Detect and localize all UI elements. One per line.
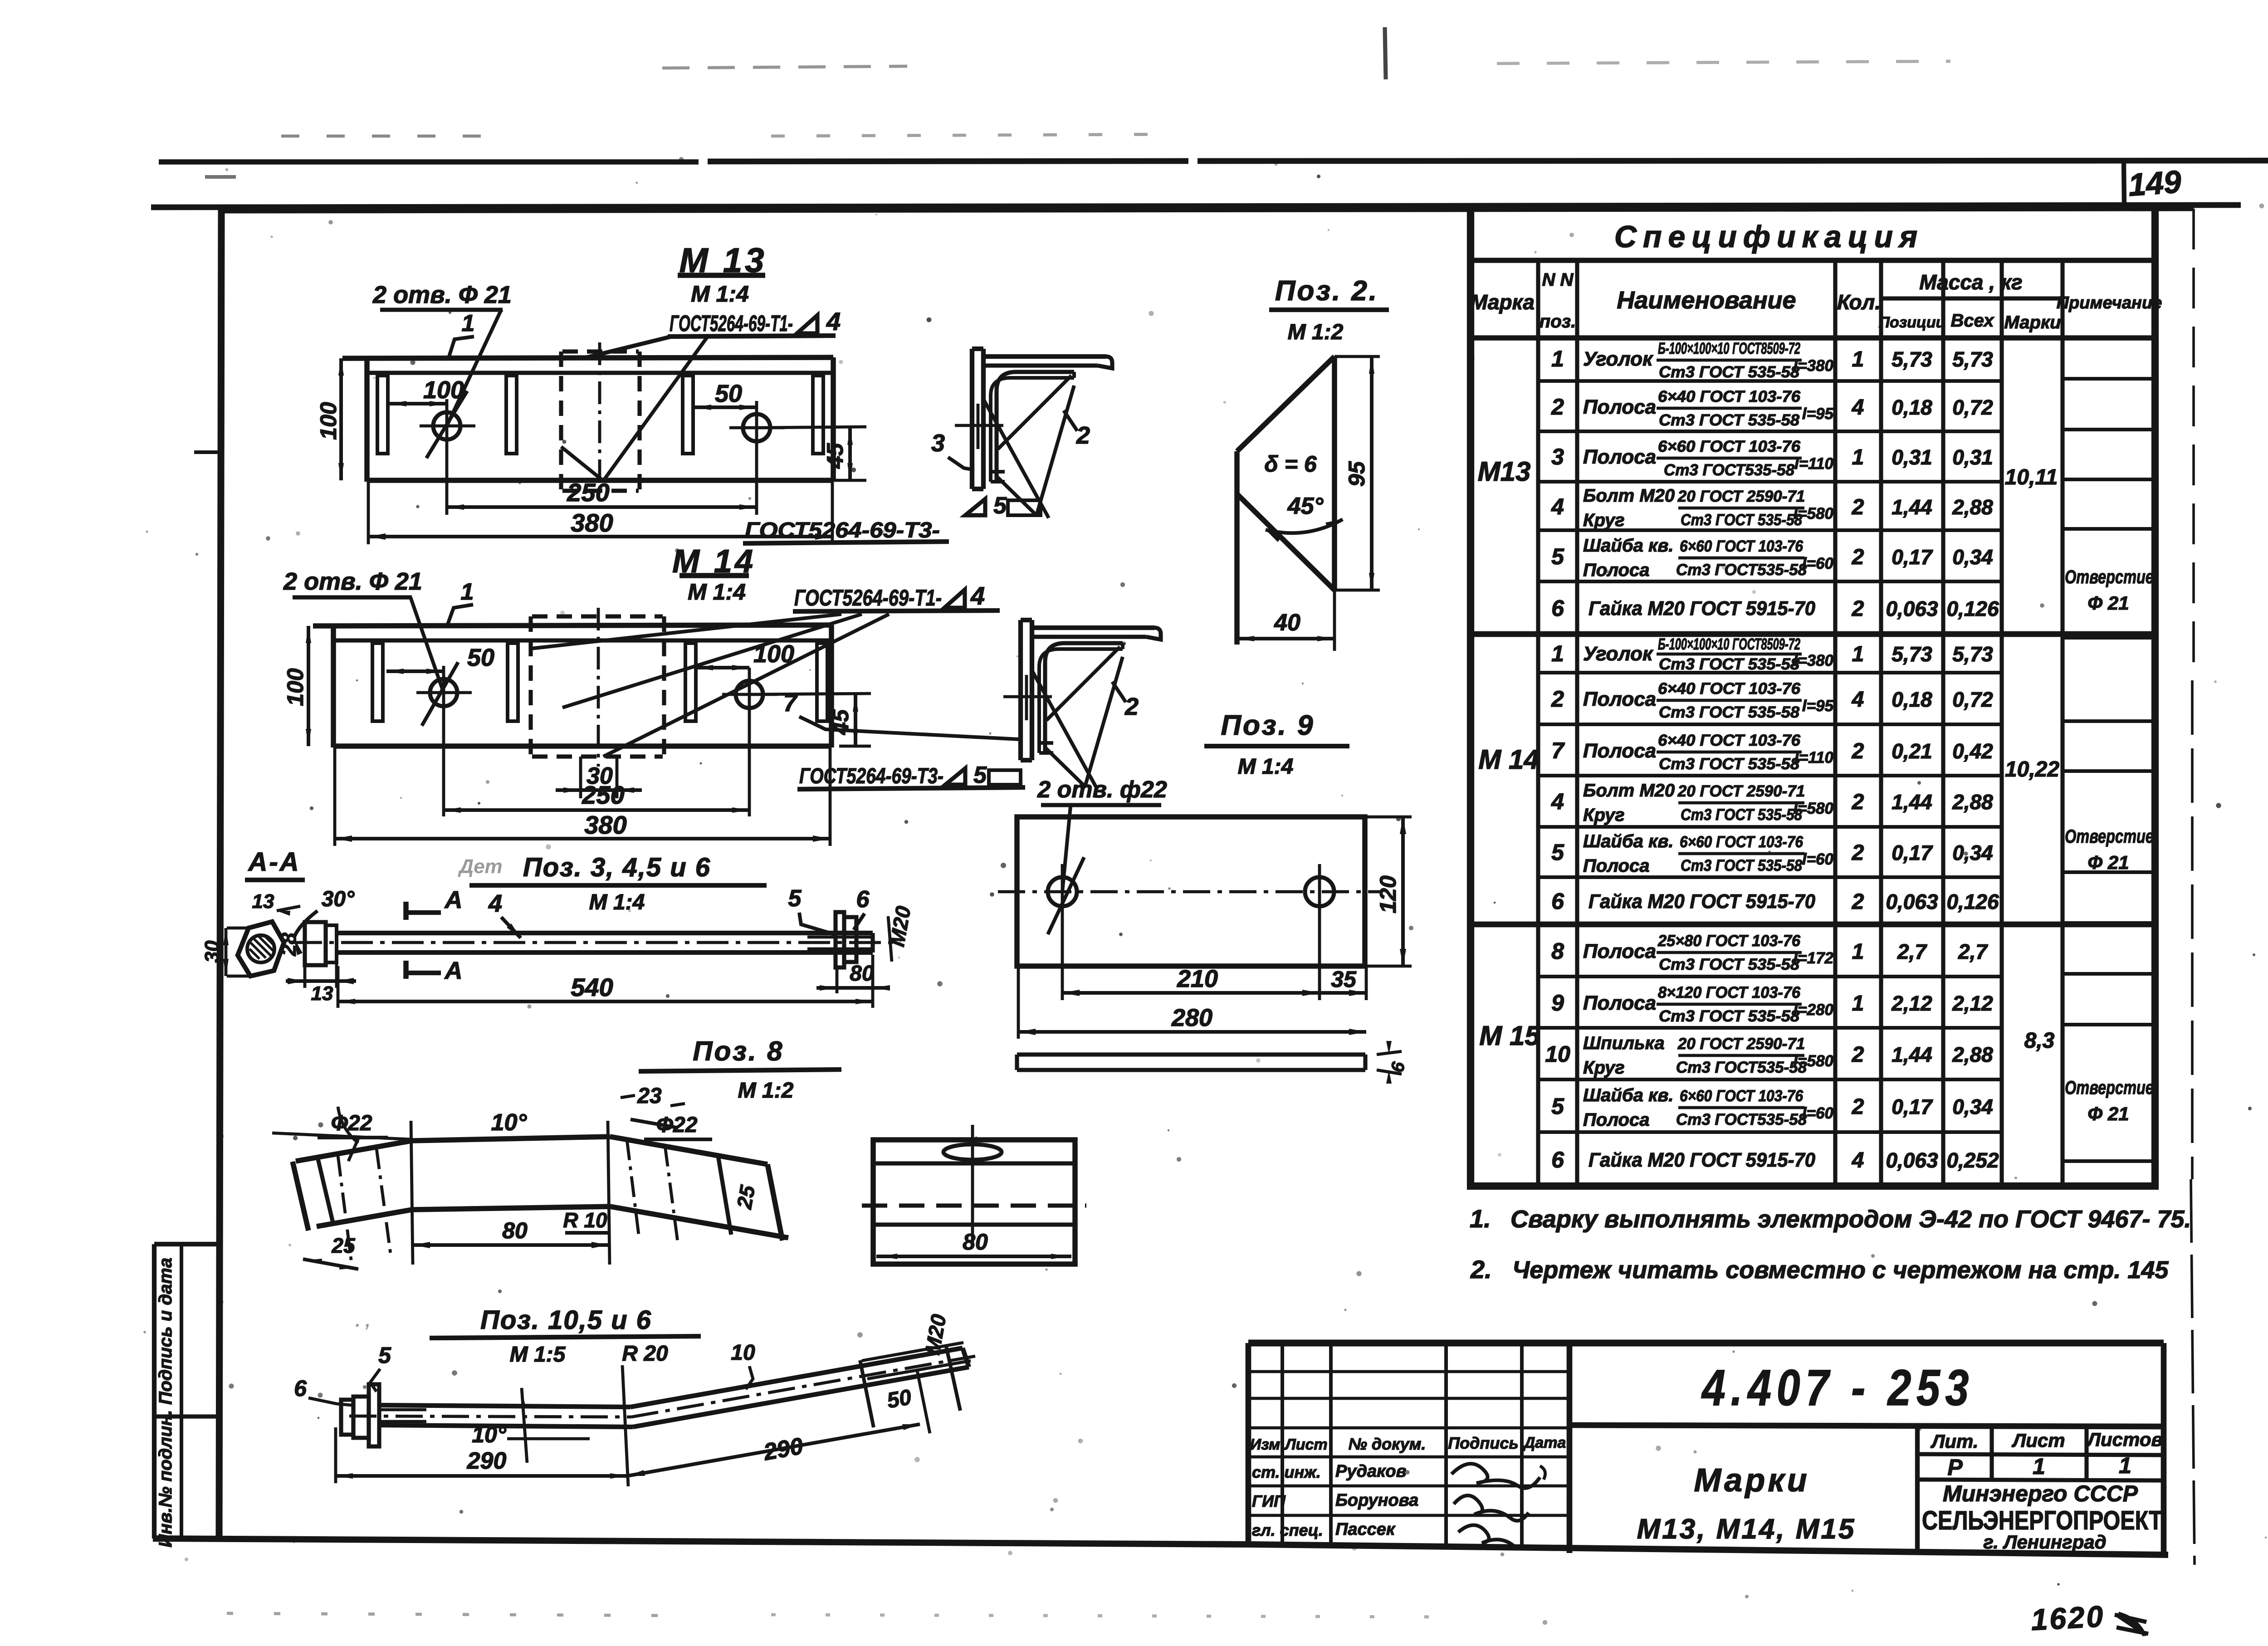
svg-text:Гайка М20 ГОСТ 5915-70: Гайка М20 ГОСТ 5915-70	[1589, 597, 1816, 620]
svg-text:2: 2	[1852, 1095, 1864, 1119]
svg-text:4: 4	[1852, 396, 1864, 420]
svg-text:10,11: 10,11	[2005, 465, 2058, 489]
svg-text:5: 5	[378, 1343, 391, 1368]
title block right section	[1915, 1425, 1920, 1553]
svg-text:100: 100	[283, 668, 308, 706]
Poz.8 top view dashed centreline	[862, 1203, 1086, 1207]
svg-text:Ст3 ГОСТ535-58: Ст3 ГОСТ535-58	[1676, 1111, 1807, 1128]
svg-text:250: 250	[582, 781, 624, 809]
svg-text:Полоса: Полоса	[1583, 688, 1656, 710]
title block left sub-table	[1281, 1343, 1284, 1547]
spec table header row	[1471, 335, 2155, 341]
stud thread lines right	[862, 1343, 963, 1361]
spec table note column offset lines	[2063, 377, 2155, 381]
svg-text:0,17: 0,17	[1892, 1095, 1933, 1118]
svg-text:Чертеж читать совместно с че: Чертеж читать совместно с чертежом на ст…	[1512, 1256, 2169, 1284]
M14 bracket plate outline	[313, 625, 831, 626]
svg-text:2: 2	[1852, 495, 1864, 519]
svg-text:l=580: l=580	[1793, 505, 1833, 523]
svg-text:280: 280	[1171, 1004, 1212, 1031]
svg-text:4: 4	[826, 307, 841, 336]
svg-text:Рудаков: Рудаков	[1335, 1462, 1407, 1481]
svg-text:10: 10	[1545, 1041, 1570, 1067]
svg-text:Ф 21: Ф 21	[2087, 1103, 2129, 1124]
svg-text:Гайка М20 ГОСТ 5915-70: Гайка М20 ГОСТ 5915-70	[1589, 1149, 1816, 1171]
svg-text:80: 80	[963, 1229, 988, 1255]
Poz.8 bend extension lines	[411, 1121, 413, 1265]
svg-text:l=580: l=580	[1793, 1052, 1833, 1070]
stud centreline	[349, 1416, 631, 1417]
title block outer	[1248, 1339, 2164, 1346]
svg-text:50: 50	[885, 1385, 913, 1413]
svg-text:6: 6	[1551, 596, 1564, 621]
svg-text:3: 3	[931, 430, 945, 457]
Poz.8 top view slot ellipse	[943, 1144, 1002, 1160]
svg-text:М13, М14, М15: М13, М14, М15	[1637, 1514, 1856, 1545]
svg-text:Шпилька: Шпилька	[1583, 1033, 1665, 1053]
svg-text:5: 5	[788, 885, 802, 912]
svg-text:Дет: Дет	[457, 855, 502, 878]
svg-text:Ст3 ГОСТ 535-58: Ст3 ГОСТ 535-58	[1659, 703, 1800, 721]
svg-text:Круг: Круг	[1583, 805, 1625, 825]
svg-text:Полоса: Полоса	[1583, 992, 1656, 1014]
svg-text:20 ГОСТ 2590-71: 20 ГОСТ 2590-71	[1677, 488, 1805, 505]
svg-text:0,17: 0,17	[1892, 841, 1933, 865]
svg-text:R 10: R 10	[563, 1208, 607, 1232]
M14 dim 100 right	[696, 666, 749, 669]
svg-text:Круг: Круг	[1583, 510, 1625, 530]
svg-text:N N: N N	[1542, 270, 1574, 290]
M13 dim 45 vertical right	[757, 427, 866, 428]
svg-text:2,12: 2,12	[1952, 992, 1993, 1015]
svg-text:2: 2	[1852, 890, 1864, 914]
svg-text:Спецификация: Спецификация	[1614, 220, 1924, 254]
Poz.2 gusset outline	[1332, 357, 1337, 590]
svg-text:1: 1	[1852, 445, 1864, 469]
svg-text:6: 6	[856, 886, 870, 913]
svg-text:Уголок: Уголок	[1583, 643, 1654, 665]
M14 channel centreline	[597, 608, 600, 767]
svg-text:А-А: А-А	[247, 847, 300, 877]
svg-text:100: 100	[316, 402, 341, 440]
svg-text:Отверстие: Отверстие	[2065, 825, 2154, 847]
svg-text:Б-100×100×10 ГОСТ8509-72: Б-100×100×10 ГОСТ8509-72	[1658, 635, 1800, 653]
svg-text:6×40 ГОСТ 103-76: 6×40 ГОСТ 103-76	[1658, 732, 1801, 749]
svg-text:Полоса: Полоса	[1583, 396, 1656, 418]
Poz.9 hole right	[1305, 877, 1334, 906]
svg-text:7: 7	[1551, 738, 1565, 763]
stud shaft straight section	[379, 1405, 631, 1407]
svg-text:l=60: l=60	[1802, 850, 1834, 868]
M14 side view angle bracket	[1018, 620, 1023, 760]
svg-text:. ,: . ,	[355, 1311, 370, 1331]
Poz.9 dim 120	[1365, 816, 1412, 819]
M13 dim 50	[694, 405, 757, 409]
svg-text:ст. инж.: ст. инж.	[1252, 1463, 1321, 1481]
svg-text:2 отв. ф22: 2 отв. ф22	[1037, 777, 1167, 803]
svg-text:Ст3 ГОСТ 535-58: Ст3 ГОСТ 535-58	[1659, 956, 1800, 973]
svg-text:Ст3 ГОСТ 535-58: Ст3 ГОСТ 535-58	[1681, 511, 1802, 529]
svg-text:0,31: 0,31	[1952, 445, 1993, 469]
svg-text:Ф 21: Ф 21	[2087, 852, 2129, 873]
M13 side view angle bracket	[970, 349, 974, 489]
svg-text:6×40 ГОСТ 103-76: 6×40 ГОСТ 103-76	[1658, 680, 1801, 698]
svg-text:2: 2	[1076, 422, 1090, 449]
svg-text:6×60 ГОСТ 103-76: 6×60 ГОСТ 103-76	[1680, 833, 1803, 851]
M14 dim 50 left	[386, 669, 444, 673]
svg-text:1: 1	[1852, 642, 1864, 666]
svg-text:Кол.: Кол.	[1837, 290, 1881, 314]
Poz.2 dim 95	[1334, 355, 1380, 358]
svg-text:l=110: l=110	[1794, 455, 1833, 473]
svg-text:Полоса: Полоса	[1583, 940, 1656, 962]
svg-text:25: 25	[732, 1183, 760, 1211]
svg-text:6×40 ГОСТ 103-76: 6×40 ГОСТ 103-76	[1658, 388, 1801, 405]
svg-text:Шайба кв.: Шайба кв.	[1583, 831, 1674, 851]
svg-text:Ф22: Ф22	[331, 1111, 372, 1135]
svg-text:l=380: l=380	[1793, 652, 1833, 669]
svg-text:Р: Р	[1947, 1455, 1963, 1480]
drawing frame bottom border	[153, 1539, 1252, 1544]
svg-text:13: 13	[252, 890, 274, 913]
svg-text:4.407 - 253: 4.407 - 253	[1701, 1359, 1974, 1416]
drawing frame right border (broken thin)	[2192, 209, 2195, 680]
bolt dim 540	[337, 966, 340, 1008]
svg-text:0,42: 0,42	[1952, 739, 1993, 763]
svg-text:5,73: 5,73	[1952, 347, 1993, 371]
M13 dim 100 vertical left	[339, 358, 343, 480]
svg-text:0,126: 0,126	[1946, 890, 1999, 913]
svg-text:Ст3 ГОСТ 535-58: Ст3 ГОСТ 535-58	[1659, 411, 1800, 429]
svg-text:290: 290	[467, 1448, 507, 1474]
svg-text:4: 4	[488, 890, 502, 917]
Poz.9 dim 280	[1017, 966, 1020, 1039]
M13 leader 1	[448, 337, 474, 359]
svg-text:0,31: 0,31	[1892, 445, 1932, 469]
svg-text:120: 120	[1375, 875, 1401, 913]
svg-text:1: 1	[1852, 347, 1864, 371]
svg-text:М 1:4: М 1:4	[688, 579, 746, 605]
svg-text:25×80 ГОСТ 103-76: 25×80 ГОСТ 103-76	[1657, 932, 1800, 950]
Poz.8 top view dim 80	[876, 1255, 1071, 1258]
svg-text:поз.: поз.	[1540, 312, 1576, 332]
svg-text:0,063: 0,063	[1886, 1148, 1938, 1172]
svg-text:М 15: М 15	[1479, 1021, 1540, 1051]
svg-text:Дата: Дата	[1523, 1434, 1566, 1451]
bottom faint dust line	[227, 1613, 680, 1616]
svg-text:г. Ленинград: г. Ленинград	[1983, 1531, 2106, 1553]
svg-text:Шайба кв.: Шайба кв.	[1583, 536, 1674, 556]
svg-text:1: 1	[462, 310, 475, 337]
top centre tick mark	[1385, 27, 1386, 79]
svg-text:Полоса: Полоса	[1583, 446, 1656, 468]
svg-text:Листов: Листов	[2086, 1429, 2163, 1450]
svg-text:10,22: 10,22	[2005, 757, 2059, 781]
svg-text:гл. спец.: гл. спец.	[1252, 1521, 1323, 1539]
svg-text:Марки: Марки	[2004, 313, 2061, 332]
svg-text:М 1:2: М 1:2	[738, 1079, 794, 1103]
svg-text:Примечание: Примечание	[2057, 293, 2162, 313]
svg-text:250: 250	[567, 478, 609, 507]
svg-text:l=172: l=172	[1793, 949, 1833, 967]
svg-text:ГОСТ5264-69-Т3-: ГОСТ5264-69-Т3-	[799, 764, 943, 788]
svg-text:45°: 45°	[1287, 493, 1324, 519]
svg-text:0,34: 0,34	[1952, 545, 1993, 569]
svg-text:149: 149	[2127, 164, 2182, 203]
svg-text:2: 2	[1124, 693, 1139, 720]
svg-text:380: 380	[584, 811, 626, 839]
svg-text:2: 2	[1852, 545, 1864, 569]
svg-text:9: 9	[1551, 990, 1564, 1016]
Poz.8 hole centrelines left	[338, 1156, 352, 1263]
svg-text:Ст3 ГОСТ 535-58: Ст3 ГОСТ 535-58	[1681, 806, 1802, 824]
svg-text:0,252: 0,252	[1946, 1148, 1999, 1172]
Poz.8 strip centre section	[412, 1137, 610, 1141]
svg-text:l=280: l=280	[1793, 1001, 1833, 1019]
M13 bracket plate outline	[342, 357, 833, 358]
svg-text:Наименование: Наименование	[1617, 287, 1796, 314]
M14 side inner angle profile	[1045, 643, 1123, 753]
svg-text:Полоса: Полоса	[1583, 560, 1649, 580]
M13 dim 100 horizontal	[389, 402, 447, 405]
page number box divider	[2124, 162, 2124, 205]
svg-text:Поз. 9: Поз. 9	[1221, 710, 1315, 741]
M13 weld leaders	[583, 337, 671, 358]
Poz.8 hole centrelines right	[627, 1139, 639, 1235]
svg-text:Масса , кг: Масса , кг	[1919, 270, 2022, 294]
svg-text:80: 80	[502, 1218, 528, 1243]
M13 side leaders and X	[998, 376, 1071, 449]
svg-text:Поз. 8: Поз. 8	[693, 1036, 784, 1066]
svg-text:45: 45	[822, 443, 848, 469]
svg-text:5,73: 5,73	[1892, 347, 1932, 371]
Poz.2 dim 40	[1333, 590, 1336, 651]
svg-text:Болт М20: Болт М20	[1583, 781, 1675, 801]
svg-text:Подпись: Подпись	[1448, 1434, 1519, 1452]
svg-text:Шайба кв.: Шайба кв.	[1583, 1085, 1674, 1105]
svg-text:5: 5	[1551, 1094, 1564, 1119]
svg-text:80: 80	[850, 962, 874, 986]
svg-text:l=380: l=380	[1793, 357, 1833, 375]
M13 side inner angle profile	[997, 372, 1074, 482]
A-A hex nut	[238, 922, 284, 976]
svg-text:0,18: 0,18	[1892, 688, 1932, 711]
svg-text:20 ГОСТ 2590-71: 20 ГОСТ 2590-71	[1677, 782, 1805, 800]
M14 dim 30	[579, 757, 582, 798]
svg-text:М 1:5: М 1:5	[510, 1343, 566, 1367]
svg-text:1,44: 1,44	[1892, 495, 1932, 519]
svg-text:10°: 10°	[491, 1109, 528, 1136]
svg-text:ГОСТ5264-69-Т1-: ГОСТ5264-69-Т1-	[794, 585, 942, 611]
M14 leader 1	[447, 605, 473, 627]
svg-text:Поз. 10,5 и 6: Поз. 10,5 и 6	[480, 1305, 652, 1335]
svg-text:0,063: 0,063	[1886, 890, 1938, 913]
M13 hole right	[743, 414, 770, 441]
svg-text:1: 1	[2033, 1454, 2045, 1479]
svg-text:Ст3 ГОСТ535-58: Ст3 ГОСТ535-58	[1664, 461, 1795, 479]
svg-text:Марки: Марки	[1694, 1462, 1809, 1499]
svg-text:Ф 21: Ф 21	[2087, 592, 2129, 614]
svg-text:Полоса: Полоса	[1583, 740, 1656, 762]
svg-text:Болт М20: Болт М20	[1583, 486, 1675, 506]
svg-text:0,17: 0,17	[1892, 545, 1933, 569]
M13 hole left	[433, 412, 460, 440]
Poz.9 dim 210 and 35	[1061, 920, 1064, 1000]
svg-text:13: 13	[311, 982, 333, 1005]
svg-text:l=580: l=580	[1793, 800, 1833, 817]
svg-text:30: 30	[201, 940, 223, 962]
svg-text:380: 380	[571, 508, 613, 537]
spec table outer frame	[1471, 207, 2155, 1186]
svg-text:l=60: l=60	[1802, 1104, 1834, 1122]
A-A dim 30	[227, 927, 249, 930]
svg-text:40: 40	[1274, 610, 1300, 636]
svg-text:2: 2	[1551, 394, 1564, 420]
svg-text:М 1:4: М 1:4	[589, 890, 645, 914]
stud nut and washer	[341, 1400, 353, 1435]
svg-text:1,44: 1,44	[1892, 1043, 1932, 1066]
svg-text:δ = 6: δ = 6	[1264, 451, 1317, 477]
svg-text:2: 2	[1852, 790, 1864, 814]
svg-text:2 отв. Ф 21: 2 отв. Ф 21	[372, 281, 512, 308]
svg-text:Отверстие: Отверстие	[2065, 1077, 2154, 1098]
svg-text:l=95: l=95	[1802, 697, 1834, 715]
svg-text:0,72: 0,72	[1952, 396, 1993, 419]
svg-text:1: 1	[1551, 641, 1564, 666]
svg-text:Изм: Изм	[1250, 1436, 1281, 1453]
svg-text:0,34: 0,34	[1952, 1095, 1993, 1118]
svg-text:25: 25	[331, 1234, 356, 1257]
svg-text:№ докум.: № докум.	[1349, 1435, 1426, 1453]
svg-text:Позиции: Позиции	[1879, 314, 1945, 331]
svg-text:5,73: 5,73	[1952, 642, 1993, 666]
M13 dim 380	[367, 482, 370, 544]
svg-text:Ст3 ГОСТ535-58: Ст3 ГОСТ535-58	[1676, 561, 1807, 579]
svg-text:1: 1	[1551, 346, 1564, 371]
Poz.8 dim 80	[413, 1243, 609, 1247]
svg-text:Всех: Всех	[1950, 311, 1994, 331]
Poz.8 top view vertical centreline	[971, 1125, 974, 1244]
svg-text:50: 50	[467, 644, 494, 671]
svg-text:Пассек: Пассек	[1335, 1520, 1396, 1539]
svg-text:0,21: 0,21	[1892, 739, 1932, 763]
svg-text:Уголок: Уголок	[1583, 348, 1654, 370]
title block document number cell	[1567, 1343, 1573, 1553]
svg-text:Гайка М20 ГОСТ 5915-70: Гайка М20 ГОСТ 5915-70	[1589, 890, 1816, 913]
M13 dim 250	[445, 454, 449, 515]
M13 welded strip slots	[377, 376, 388, 454]
frame left tick	[194, 450, 221, 454]
svg-text:ГОСТ5264-69-Т3-: ГОСТ5264-69-Т3-	[745, 518, 940, 542]
svg-text:6: 6	[1551, 889, 1564, 914]
svg-text:0,72: 0,72	[1952, 688, 1993, 711]
svg-text:1,44: 1,44	[1892, 790, 1932, 814]
Poz.9 centreline	[998, 890, 1381, 894]
spec table row lines	[1538, 379, 2002, 383]
M13 channel centreline	[598, 342, 601, 499]
svg-text:2,12: 2,12	[1891, 992, 1932, 1015]
Poz.9 side strip view	[1017, 1052, 1365, 1056]
svg-text:2.: 2.	[1470, 1255, 1492, 1284]
M14 weld leaders from T1 label	[562, 614, 862, 708]
svg-text:35: 35	[1331, 967, 1357, 992]
svg-text:10°: 10°	[472, 1422, 507, 1447]
svg-text:2: 2	[1852, 841, 1864, 865]
svg-text:2 отв. Ф 21: 2 отв. Ф 21	[283, 568, 422, 595]
stud dim 290 left	[334, 1427, 337, 1483]
M14 dim 100 vertical left	[307, 626, 310, 746]
svg-text:8×120 ГОСТ 103-76: 8×120 ГОСТ 103-76	[1658, 984, 1801, 1001]
svg-text:Круг: Круг	[1583, 1058, 1625, 1078]
svg-text:3: 3	[1551, 444, 1564, 469]
svg-text:Отверстие: Отверстие	[2065, 566, 2154, 587]
svg-text:l=110: l=110	[1794, 749, 1833, 767]
stud shaft bent section	[631, 1348, 963, 1407]
svg-text:2,88: 2,88	[1952, 495, 1993, 519]
svg-text:20 ГОСТ 2590-71: 20 ГОСТ 2590-71	[1677, 1035, 1805, 1053]
page top second rule	[151, 205, 2241, 207]
svg-text:ГИП: ГИП	[1252, 1492, 1286, 1510]
svg-text:Ст3 ГОСТ 535-58: Ст3 ГОСТ 535-58	[1681, 857, 1802, 874]
Poz.9 plate outline	[1017, 817, 1365, 966]
svg-text:5,73: 5,73	[1892, 642, 1932, 666]
svg-text:5: 5	[1551, 840, 1564, 865]
svg-text:М13: М13	[1478, 456, 1531, 487]
svg-text:Ст3 ГОСТ 535-58: Ст3 ГОСТ 535-58	[1659, 1007, 1800, 1025]
svg-text:1: 1	[461, 579, 474, 605]
Poz.8 left wing	[296, 1141, 412, 1161]
M14 welded strip slots	[372, 643, 383, 721]
svg-text:М 1:4: М 1:4	[691, 281, 749, 307]
svg-text:0,063: 0,063	[1886, 597, 1938, 620]
svg-text:Б-100×100×10 ГОСТ8509-72: Б-100×100×10 ГОСТ8509-72	[1658, 340, 1800, 357]
svg-text:7: 7	[783, 689, 798, 717]
svg-text:5: 5	[973, 762, 987, 788]
bolt dim 80 right	[836, 968, 839, 993]
M14 dim 45 vertical right	[749, 694, 871, 694]
svg-text:Лист: Лист	[1284, 1436, 1327, 1453]
M14 centre channel dashed outline	[528, 616, 533, 757]
svg-text:0,126: 0,126	[1946, 597, 1999, 620]
svg-text:М 1:2: М 1:2	[1288, 320, 1344, 344]
svg-text:2: 2	[1551, 686, 1564, 712]
svg-text:2: 2	[1852, 1043, 1864, 1067]
svg-text:6×60 ГОСТ 103-76: 6×60 ГОСТ 103-76	[1658, 438, 1801, 455]
svg-text:l=95: l=95	[1802, 405, 1834, 423]
top scan edge line	[159, 159, 699, 165]
M14 side leaders and X	[1046, 647, 1120, 720]
svg-text:2: 2	[1852, 597, 1864, 621]
svg-text:30°: 30°	[322, 887, 355, 911]
svg-text:6×60 ГОСТ 103-76: 6×60 ГОСТ 103-76	[1680, 1087, 1803, 1105]
svg-text:Ф22: Ф22	[656, 1113, 698, 1137]
svg-text:28: 28	[277, 933, 300, 957]
svg-text:l=60: l=60	[1802, 555, 1834, 572]
drawing frame left border	[219, 210, 221, 1539]
left stamp strip box	[152, 1244, 156, 1539]
svg-text:0,18: 0,18	[1892, 396, 1932, 419]
svg-text:1: 1	[2119, 1453, 2131, 1478]
stud dim 290 right slanted	[627, 1424, 920, 1476]
bolt thread right end	[807, 936, 873, 939]
svg-text:Полоса: Полоса	[1583, 856, 1649, 876]
svg-text:210: 210	[1177, 965, 1218, 992]
drawing frame top border	[221, 208, 2194, 210]
svg-text:А: А	[444, 886, 463, 913]
bolt dim 13	[303, 966, 307, 988]
svg-text:Лист: Лист	[2011, 1430, 2065, 1451]
svg-text:1.: 1.	[1470, 1204, 1491, 1233]
